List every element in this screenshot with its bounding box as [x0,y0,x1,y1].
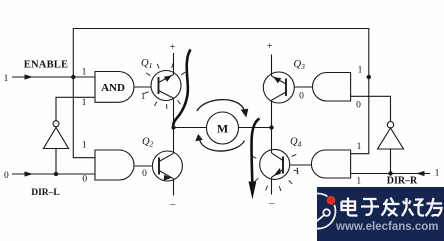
wire ENABLE input line [12,76,95,78]
junction ENABLE node [71,75,75,79]
svg-text:AND: AND [101,82,125,94]
transistor Q3 [263,55,294,128]
watermark chinese text shao [402,198,424,216]
wire left inverter output to upper-left AND [56,97,95,120]
svg-text:1: 1 [358,66,363,76]
svg-text:DIR–R: DIR–R [387,176,418,187]
wire motor right lead [239,127,272,129]
wire DIR-L input line [12,173,95,175]
wire ENABLE branch down to lower-right AND [351,77,369,154]
svg-text:www.elecfans.com: www.elecfans.com [335,221,438,233]
motor M [207,112,239,144]
inverter U6 right (DIR-R) [378,122,404,150]
svg-text:–: – [169,199,176,211]
svg-text:+: + [170,42,176,53]
AND gate U2 lower-left [95,150,134,180]
rotation arrow bottom arc [200,140,245,152]
wire U2 output to Q2 base [134,165,153,167]
watermark chinese text fa [382,198,400,217]
watermark chinese text dian [342,198,358,216]
svg-text:+: + [267,41,273,52]
svg-text:–: – [268,198,275,210]
wire U3 output to Q3 base [294,86,312,88]
wire U1 output to Q1 base [134,86,152,88]
svg-text:Q3: Q3 [294,59,306,71]
svg-text:0: 0 [299,92,304,102]
AND gate U3 upper-right (mirrored) [313,73,351,102]
svg-text:1: 1 [435,169,440,179]
wire right inverter output to upper-right AND [351,96,391,121]
svg-text:0: 0 [4,171,9,181]
svg-text:1: 1 [357,142,362,152]
wire DIR-R riser to right inverter input [390,149,392,174]
watermark chinese text zi [361,199,379,215]
current path stroke from motor through Q4 to ground arrow [252,119,260,183]
ground current arrowhead [249,182,257,200]
current path stroke through Q1 to motor [173,50,190,126]
watermark red dot [327,196,336,205]
svg-text:1: 1 [295,167,300,177]
watermark elecfans box [300,187,444,241]
svg-text:Q4: Q4 [290,137,302,149]
arrowhead DIR-R input [416,171,425,176]
AND gate U4 lower-right (mirrored) [311,150,350,178]
wire DIR-L riser to inverter input [55,149,57,175]
svg-text:0: 0 [82,175,87,185]
svg-text:Q2: Q2 [142,137,154,149]
svg-text:ENABLE: ENABLE [24,60,68,71]
transistor Q4 [260,128,290,195]
svg-text:M: M [217,122,228,136]
wire U4 output to Q4 base [290,164,312,166]
svg-text:Q1: Q1 [141,58,152,70]
transistor Q2 [152,128,182,196]
junction motor left node A [171,125,175,129]
watermark chinese text you [426,198,443,216]
svg-text:1: 1 [356,177,361,187]
AND gate U1 upper-left [95,72,134,103]
wire DIR-R input line [351,173,430,175]
sparkle highlight around Q1 [144,63,185,109]
wire ENABLE branch down to lower-left AND [73,77,95,158]
svg-text:0: 0 [142,169,147,179]
inverter U5 left (DIR-L) [44,121,69,149]
wire motor left lead [174,127,207,129]
junction DIR-L node [54,172,58,176]
svg-text:1: 1 [82,141,87,151]
transistor Q1 [151,53,181,128]
rotation arrow top arc [197,100,245,111]
arrowhead ENABLE input [25,74,34,79]
sparkle highlight around Q4 [252,154,298,191]
wire top supply rail [73,29,369,78]
svg-text:0: 0 [356,101,361,111]
svg-text:DIR–L: DIR–L [31,188,60,198]
svg-text:1: 1 [82,98,87,108]
arrowhead DIR-L input [25,171,34,176]
svg-text:1: 1 [82,68,87,78]
junction right ENABLE branch node [367,75,371,79]
svg-text:1: 1 [4,74,9,84]
junction motor right node B [269,125,273,129]
junction DIR-R node [388,171,392,175]
svg-text:1: 1 [141,92,146,102]
